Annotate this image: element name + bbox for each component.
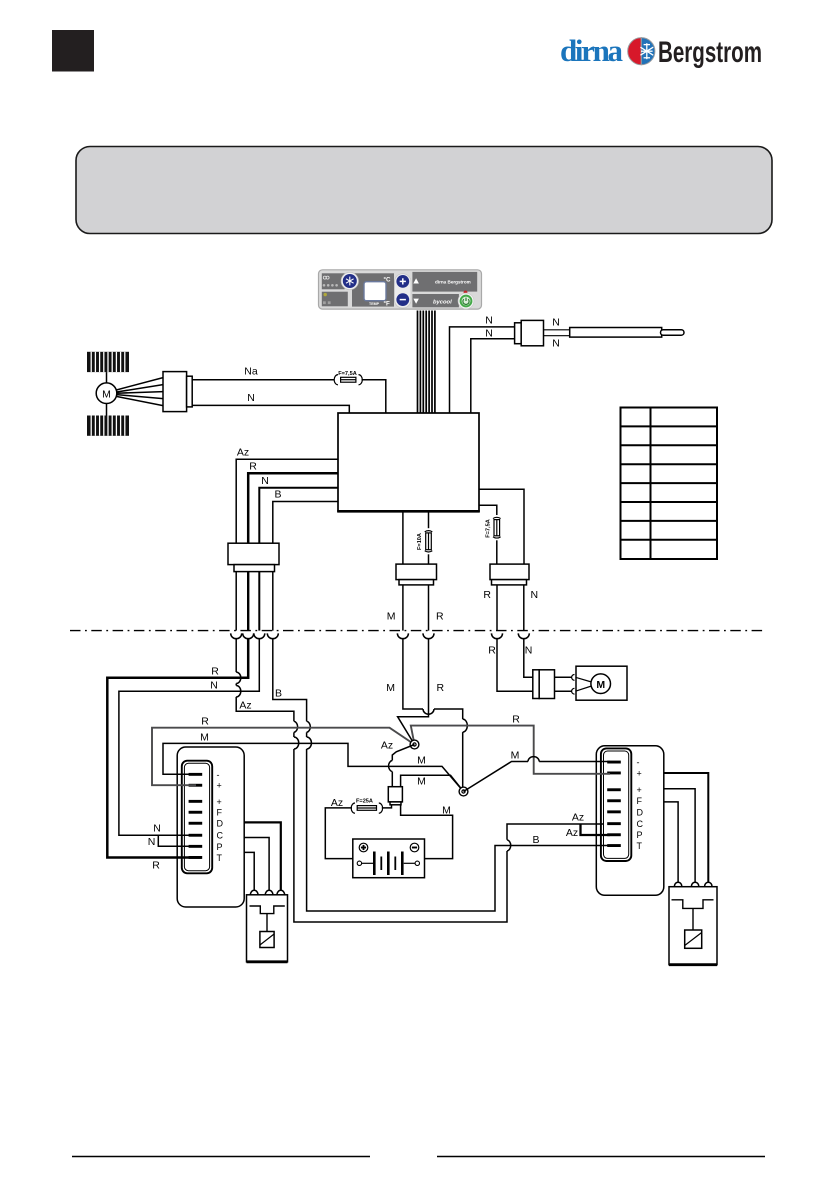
relay K1 link (266, 914, 268, 932)
wire R to condenser connector (497, 639, 533, 692)
wire R gray to right panel plus (411, 726, 610, 774)
panel arrows tile (412, 272, 477, 292)
logo snowflake (640, 43, 653, 59)
svg-text:T: T (217, 853, 223, 863)
fuse F1 7.5A (334, 375, 362, 385)
panel minus button (396, 293, 409, 306)
relay K2 link (692, 908, 694, 930)
relay K1 socket domes (250, 890, 284, 895)
svg-text:N: N (552, 317, 560, 329)
thermostat left terminal labels (217, 770, 224, 863)
thermostat right relay wire 2 (664, 789, 695, 882)
temperature probe tip (661, 330, 685, 336)
svg-text:R: R (512, 714, 520, 726)
panel up arrow (413, 278, 419, 283)
thermostat left outer body (177, 747, 244, 907)
svg-text:N: N (525, 645, 533, 657)
relay K2 socket domes (674, 882, 712, 887)
temperature probe connector (515, 323, 522, 344)
svg-text:F: F (637, 796, 643, 806)
panel fan icon (323, 276, 329, 279)
wire M plug to junction J2 (401, 775, 464, 791)
harness cable bundle (418, 311, 435, 414)
panel lower-right tile (412, 294, 459, 307)
battery minus terminal (410, 843, 419, 852)
wire N to thermostat C (119, 639, 259, 836)
svg-text:R: R (152, 860, 160, 872)
fuse F2 10A (425, 531, 433, 552)
wire N branch to P (158, 835, 201, 846)
thermostat left inner frame (182, 761, 212, 874)
svg-text:N: N (552, 338, 560, 350)
svg-text:R: R (483, 589, 491, 601)
svg-text:Az: Az (239, 700, 251, 712)
svg-text:B: B (532, 834, 539, 846)
condenser motor V leads (576, 677, 592, 682)
thermostat right terminal labels (637, 758, 644, 852)
svg-text:dirna: dirna (560, 33, 624, 68)
svg-text:+: + (217, 797, 222, 807)
panel led dots row (323, 284, 338, 287)
evaporator motor shaft wires (106, 372, 108, 383)
panel yellow led (324, 293, 327, 296)
condenser motor box (576, 666, 627, 700)
svg-text:F=7,5A: F=7,5A (338, 371, 357, 377)
wire Az hop over B line (507, 840, 511, 851)
svg-text:D: D (217, 819, 224, 829)
svg-text:P: P (217, 842, 223, 852)
junction J1 (410, 740, 419, 749)
svg-text:Az: Az (381, 740, 393, 752)
relay K2 box (669, 887, 717, 965)
evaporator fan stripes top (87, 352, 129, 372)
wire M from unit bottom (402, 511, 404, 564)
legend table (621, 408, 718, 560)
condenser motor M2 (591, 674, 611, 694)
wire M from thermostat minus to junction J2 (163, 743, 464, 791)
svg-text:F: F (217, 808, 223, 818)
probe lead wires (544, 329, 571, 331)
wire R fuse to connector (428, 554, 430, 564)
relay K2 coil (685, 930, 702, 948)
relay K2 contact (672, 900, 714, 909)
svg-text:Az: Az (566, 827, 578, 839)
connector X2 (396, 564, 437, 580)
svg-text:M: M (387, 611, 396, 623)
svg-text:N: N (261, 475, 269, 487)
thermostat right outer body (596, 746, 664, 896)
panel plus-minus capsule (395, 274, 412, 308)
svg-text:dirna Bergstrom: dirna Bergstrom (435, 280, 471, 285)
svg-text:F=25A: F=25A (356, 799, 373, 805)
wire M to junction J2 (403, 639, 463, 792)
svg-text:°F: °F (384, 301, 390, 308)
svg-text:M: M (596, 679, 605, 691)
svg-text:F=10A: F=10A (417, 533, 423, 550)
svg-text:Az: Az (572, 812, 584, 824)
wire B from unit (273, 502, 338, 544)
evaporator motor M1 (96, 383, 117, 404)
wire R to junction J1 (398, 639, 429, 745)
wire Az long route to right panel C (236, 639, 603, 922)
evaporator motor connector (163, 372, 187, 412)
wire Az hop over R line (294, 721, 298, 732)
black corner square (52, 30, 94, 72)
svg-text:+: + (637, 785, 642, 795)
thermostat left relay wire 2 (244, 838, 269, 891)
svg-text:M: M (102, 389, 111, 401)
svg-text:B: B (275, 688, 282, 700)
battery plug connector (388, 787, 402, 802)
control panel U1 body (319, 270, 482, 309)
thermostat right terminal bars (607, 761, 621, 847)
evaporator fan stripes bottom (87, 416, 129, 436)
control unit box U2 (338, 413, 479, 511)
bulkhead socket cups (231, 633, 530, 638)
wire M hop over R gray vertical (528, 757, 539, 762)
wire fuse to plug pin1 (382, 805, 392, 808)
relay K1 coil (260, 932, 274, 948)
svg-text:R: R (201, 716, 209, 728)
svg-text:+: + (637, 768, 642, 778)
svg-text:C: C (217, 831, 224, 841)
svg-text:N: N (485, 315, 493, 327)
wire Az junction to plug (392, 745, 414, 787)
condenser connector X4 (533, 670, 539, 699)
thermostat right relay wire 3 (664, 802, 678, 882)
panel down arrow (413, 299, 419, 304)
thermostat left relay wire 3 (244, 852, 254, 890)
svg-text:Na: Na (244, 366, 258, 378)
wire plug pin2 to battery minus (401, 805, 453, 859)
wire R from unit (248, 473, 338, 543)
wire Az from unit (236, 459, 338, 543)
wire B hop over M line (307, 737, 312, 749)
bulkhead dash-dot line (70, 630, 766, 632)
svg-text:N: N (153, 823, 161, 835)
junction J2 (459, 787, 468, 796)
svg-text:P: P (637, 830, 643, 840)
title grey rounded box (76, 147, 772, 234)
thermostat left terminal bars (189, 773, 203, 859)
svg-text:+: + (217, 781, 222, 791)
svg-text:R: R (488, 645, 496, 657)
wire fuse to connector X3 (496, 540, 498, 564)
battery plus terminal (359, 843, 368, 852)
panel display tile (352, 273, 394, 306)
svg-text:N: N (531, 589, 539, 601)
relay K1 contact (250, 906, 285, 914)
svg-text:bycool: bycool (433, 299, 452, 305)
panel small squares (323, 301, 326, 304)
wire to condenser R branch (479, 489, 524, 564)
svg-text:R: R (249, 461, 257, 473)
svg-text:°C: °C (384, 277, 391, 284)
svg-text:-: - (217, 770, 220, 780)
wire Na after fuse (362, 380, 386, 413)
svg-text:M: M (417, 755, 426, 767)
logo globe icon blue half (641, 38, 655, 65)
wire Az hop over M line (389, 760, 393, 771)
panel tile top-left (322, 273, 345, 289)
svg-text:N: N (247, 392, 255, 404)
wire Az hop over R horizontal (236, 672, 241, 683)
thermostat left relay wire 1 (244, 822, 281, 890)
motor fan-out wires to connector (116, 378, 163, 390)
thermostat right inner frame (601, 748, 631, 861)
svg-text:Bergstrom: Bergstrom (658, 36, 762, 69)
svg-text:B: B (274, 489, 281, 501)
wire Az hop over N horizontal (236, 686, 241, 697)
bulkhead connector X1 (228, 543, 279, 564)
panel snowflake button (341, 272, 358, 289)
wire N sensor-2 (471, 339, 515, 413)
wire N from unit (259, 488, 338, 544)
svg-text:T: T (637, 841, 643, 851)
wires M R below X2 (402, 585, 404, 631)
wire battery plus to fuse (325, 808, 353, 859)
svg-text:N: N (148, 836, 156, 848)
svg-text:N: N (210, 680, 218, 692)
footer rule right (437, 1156, 765, 1158)
relay K1 box (247, 895, 288, 962)
battery G1 box (353, 839, 425, 878)
svg-text:R: R (437, 682, 445, 694)
wire Az branch to right panel P (581, 824, 611, 835)
panel power button (458, 293, 474, 309)
svg-text:TEMP: TEMP (369, 302, 380, 306)
wire Na (192, 379, 334, 381)
wire R from unit bottom to fuse (428, 511, 430, 528)
svg-text:-: - (637, 758, 640, 768)
panel plus button (396, 275, 409, 288)
battery cells (357, 861, 361, 865)
wire R gray from thermostat plus to junction J1 (152, 728, 415, 786)
wire Az hop over M line (294, 737, 299, 749)
wire N to condenser connector (524, 639, 533, 678)
fuse F4 25A (351, 803, 382, 813)
svg-text:M: M (417, 776, 426, 788)
panel tile bottom-left (322, 292, 348, 307)
svg-text:M: M (200, 732, 209, 744)
svg-text:C: C (637, 819, 644, 829)
fuse F3 7.5A (493, 517, 501, 538)
panel display window (364, 282, 386, 301)
connector X3 (490, 564, 529, 580)
wire to condenser fuse branch (479, 505, 497, 515)
svg-text:M: M (511, 750, 520, 762)
footer rule left (72, 1156, 370, 1158)
svg-text:M: M (386, 682, 395, 694)
panel red led (464, 291, 468, 295)
wire N sensor-1 (450, 327, 516, 413)
wire M junction J2 to right panel minus (464, 762, 611, 792)
wire B long route to right panel T (273, 639, 610, 911)
wire M dip hop over R (423, 709, 434, 714)
wires R N below X3 (496, 585, 498, 631)
svg-text:Az: Az (237, 447, 249, 459)
condenser lead hooks (572, 675, 575, 681)
thermostat right relay wire 1 (664, 773, 709, 882)
svg-text:D: D (637, 807, 644, 817)
svg-text:R: R (211, 666, 219, 678)
svg-text:N: N (485, 328, 493, 340)
wire R to thermostat T (107, 639, 248, 858)
wire N from motor connector (192, 405, 349, 413)
logo globe icon red half (628, 38, 642, 65)
condenser connector leads (555, 676, 572, 678)
svg-text:R: R (436, 611, 444, 623)
temperature probe body (570, 328, 662, 338)
wires Az R N B below X1 (235, 572, 237, 631)
wire B hop over R line (307, 721, 311, 732)
wire M hop over R gray line (463, 719, 468, 732)
svg-text:F=7,5A: F=7,5A (486, 519, 492, 538)
